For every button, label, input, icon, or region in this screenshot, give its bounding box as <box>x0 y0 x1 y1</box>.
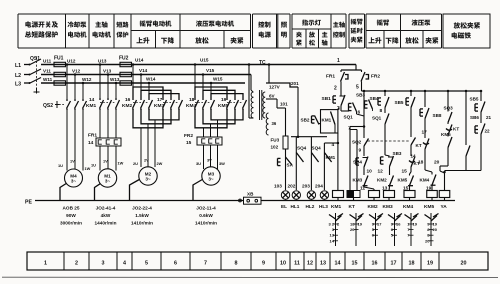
label 127V tap and wire 201 <box>266 83 298 87</box>
limit switch SQ4a <box>295 137 297 153</box>
svg-text:204: 204 <box>315 184 323 189</box>
svg-text:W11: W11 <box>43 77 53 82</box>
svg-text:1: 1 <box>337 58 340 64</box>
svg-text:JO2-11-4: JO2-11-4 <box>196 206 216 211</box>
svg-text:15: 15 <box>186 140 192 146</box>
svg-text:V15: V15 <box>206 68 215 73</box>
svg-text:SQ2: SQ2 <box>352 140 362 145</box>
svg-text:FR1: FR1 <box>326 74 335 80</box>
svg-text:HL3: HL3 <box>319 204 328 209</box>
svg-text:17: 17 <box>157 97 163 103</box>
wire control common bus <box>261 200 455 202</box>
contact table KM4 <box>410 213 412 246</box>
svg-text:KT: KT <box>349 204 355 210</box>
limit switch contact SQ1b <box>384 108 386 114</box>
svg-text:6V: 6V <box>269 94 276 99</box>
svg-text:3~: 3~ <box>105 179 111 184</box>
svg-text:QS2: QS2 <box>43 103 53 109</box>
svg-text:YA: YA <box>441 204 448 210</box>
ground wire M2 to PE <box>130 180 140 201</box>
motor M2 <box>139 167 157 185</box>
svg-text:KM4: KM4 <box>420 178 430 183</box>
motor M3 <box>202 167 220 185</box>
wire 1 <box>355 65 357 71</box>
svg-text:9: 9 <box>359 148 362 154</box>
contactor KM3 main contacts <box>154 97 183 110</box>
svg-text:QS1: QS1 <box>30 56 40 62</box>
wire TC primary feed from L1 <box>248 65 250 119</box>
svg-text:KM3: KM3 <box>383 204 393 210</box>
parallel loop SB2 / KM1 self-hold <box>321 110 338 133</box>
svg-text:18: 18 <box>418 160 424 166</box>
thermal contact FR1 <box>340 70 342 72</box>
interlock contact KM3 <box>364 176 368 186</box>
svg-text:1V: 1V <box>103 159 108 164</box>
header cell: hydraulic pump motor / release / clamp <box>196 21 234 27</box>
lamp EL <box>281 191 289 199</box>
svg-text:19: 19 <box>221 97 227 103</box>
interlock contact KM2 <box>390 176 394 186</box>
button SB3 break contact <box>380 157 382 164</box>
svg-text:4: 4 <box>123 261 126 267</box>
svg-text:SB3: SB3 <box>393 151 402 156</box>
lamp HL1 <box>292 191 300 199</box>
svg-text:U12: U12 <box>67 59 76 64</box>
svg-text:16: 16 <box>125 97 131 103</box>
svg-text:FU2: FU2 <box>119 56 129 62</box>
svg-text:KM4: KM4 <box>403 204 413 210</box>
svg-text:SQ4: SQ4 <box>312 146 322 151</box>
contact table KM5/YA <box>430 213 432 246</box>
header cell: short-circuit protection <box>116 22 128 28</box>
svg-text:1U: 1U <box>91 163 96 168</box>
ground wire M1 to PE <box>95 184 101 201</box>
svg-text:201: 201 <box>291 81 299 86</box>
svg-text:KM5: KM5 <box>441 132 451 137</box>
svg-text:8: 8 <box>235 261 238 267</box>
svg-text:U11: U11 <box>43 59 52 64</box>
button SB4 break contact <box>363 146 365 156</box>
svg-text:6: 6 <box>174 261 177 267</box>
svg-text:KM1: KM1 <box>322 118 332 123</box>
wire L1 bus <box>41 64 356 66</box>
wires KM1 to FR1 <box>99 110 101 138</box>
interlock contact KM5 <box>410 176 414 186</box>
auxiliary contact KM5 right branch <box>465 91 467 145</box>
svg-text:HL1: HL1 <box>291 204 300 209</box>
header cell: rocker-arm delayed clamping <box>351 19 363 25</box>
button SB5 clamp-release chain <box>480 91 482 101</box>
wire KM1 drops <box>99 65 101 99</box>
start button SB3 (arm up) <box>363 91 365 98</box>
thermal relay FR1 heaters <box>88 133 121 147</box>
svg-text:10: 10 <box>280 261 286 267</box>
svg-text:TC: TC <box>259 60 266 66</box>
svg-text:KM2: KM2 <box>122 103 132 109</box>
svg-text:EL: EL <box>281 204 287 209</box>
header cell: rocker arm / up / down <box>377 20 389 26</box>
svg-text:1V: 1V <box>70 159 75 164</box>
svg-text:15: 15 <box>402 169 408 175</box>
svg-text:L1: L1 <box>15 63 21 69</box>
svg-text:102: 102 <box>271 145 279 150</box>
svg-text:14: 14 <box>88 140 94 146</box>
header table frame <box>18 14 490 48</box>
coil KM2 <box>369 191 380 198</box>
contactor KM2 main contacts <box>122 97 153 110</box>
svg-text:2U: 2U <box>133 161 138 166</box>
svg-text:SB1: SB1 <box>322 96 332 102</box>
svg-text:KM1: KM1 <box>331 204 341 210</box>
motor M1 <box>98 169 116 187</box>
coil KM4 <box>404 191 415 198</box>
svg-text:KT: KT <box>416 143 422 148</box>
wires to FR2 <box>203 128 205 137</box>
svg-text:JO2-41-4: JO2-41-4 <box>96 206 116 211</box>
wire L2 bus <box>41 74 251 76</box>
svg-text:202: 202 <box>288 184 296 189</box>
svg-text:103: 103 <box>274 184 282 189</box>
svg-text:JO2-22-4: JO2-22-4 <box>132 206 152 211</box>
svg-text:2: 2 <box>75 261 78 267</box>
svg-text:U14: U14 <box>135 58 144 63</box>
header cell: cooling pump motor <box>68 22 87 28</box>
auxiliary contact KM1 for spindle lamp <box>324 142 338 144</box>
thermal relay FR2 heaters <box>184 133 222 146</box>
limit switch SQ2a <box>363 116 365 138</box>
winding 36V <box>266 113 268 135</box>
svg-text:12: 12 <box>378 169 384 175</box>
wire KM3 cross-links upper <box>133 87 163 98</box>
svg-text:3V: 3V <box>207 158 212 163</box>
svg-text:AOB 25: AOB 25 <box>63 206 80 211</box>
svg-text:5: 5 <box>145 261 148 267</box>
time contact KT delayed c <box>447 123 449 125</box>
mechanical link dashes SQ2 <box>368 140 411 142</box>
svg-text:V12: V12 <box>72 69 81 74</box>
wire link to YA branch <box>445 170 482 172</box>
svg-text:2W: 2W <box>157 161 163 166</box>
svg-text:15: 15 <box>352 261 358 267</box>
svg-text:8: 8 <box>380 108 383 114</box>
switch SA lighting <box>285 149 287 157</box>
wire to KT coil <box>350 126 364 128</box>
svg-text:1U: 1U <box>58 163 63 168</box>
svg-text:3~: 3~ <box>208 177 214 182</box>
svg-text:L3: L3 <box>15 82 21 88</box>
svg-text:SB4: SB4 <box>370 96 379 101</box>
svg-text:SB4: SB4 <box>353 160 362 165</box>
svg-text:W14: W14 <box>146 77 156 82</box>
contact table KT <box>355 213 357 246</box>
svg-text:18: 18 <box>409 261 415 267</box>
svg-text:KM1: KM1 <box>86 103 96 109</box>
button SB6 chain <box>474 126 476 133</box>
svg-text:SQ1: SQ1 <box>372 116 382 121</box>
wire 4 to coil KM1 <box>337 133 339 191</box>
svg-text:13: 13 <box>320 261 326 267</box>
time contact KT delayed b <box>425 139 429 150</box>
wire TC link from L1 bus <box>268 65 270 84</box>
svg-text:17: 17 <box>391 261 397 267</box>
svg-text:3: 3 <box>102 261 105 267</box>
transformer TC <box>251 60 266 120</box>
ground wire M4 to PE <box>60 184 66 201</box>
wire to YA <box>440 165 448 167</box>
limit switch SQ3 <box>447 91 449 112</box>
svg-text:16: 16 <box>372 261 378 267</box>
svg-text:90W: 90W <box>66 213 76 218</box>
svg-text:KM5: KM5 <box>398 178 408 183</box>
svg-text:21: 21 <box>486 115 492 120</box>
button SB6 (clamp) <box>424 91 426 107</box>
fuse FU3 wire 102 <box>285 108 287 136</box>
header cell: control power <box>258 22 270 28</box>
sheet number strip <box>27 252 488 270</box>
wires FR2 to M3 <box>203 145 205 169</box>
svg-text:3U: 3U <box>196 161 201 166</box>
svg-text:9: 9 <box>262 261 265 267</box>
wire lamp bottoms <box>285 199 287 202</box>
svg-text:SB3: SB3 <box>356 93 365 98</box>
label wire 5 <box>361 84 363 91</box>
header cell: hydraulic pump / release / clamp <box>412 20 431 26</box>
svg-text:0.6kW: 0.6kW <box>199 213 213 218</box>
contact table KM3 <box>394 213 396 246</box>
wire KM5 cross-links upper <box>195 87 227 98</box>
svg-text:FU1: FU1 <box>54 56 64 62</box>
svg-text:4kW: 4kW <box>101 213 111 218</box>
wires to M2 <box>140 128 142 167</box>
switch QS2 <box>43 99 87 110</box>
ground wire M3 to PE <box>193 180 202 201</box>
coil KT time relay <box>347 191 354 198</box>
svg-text:17: 17 <box>422 130 428 136</box>
svg-text:KM2: KM2 <box>377 178 387 183</box>
wire L3 bus <box>41 82 245 84</box>
limit switch SQ4b <box>310 137 312 153</box>
svg-text:203: 203 <box>302 184 310 189</box>
svg-text:1410r/min: 1410r/min <box>131 221 153 226</box>
svg-text:KM1: KM1 <box>326 155 336 160</box>
svg-text:3~: 3~ <box>145 177 151 182</box>
svg-text:KM3: KM3 <box>353 178 363 183</box>
start button SB4 (arm down) <box>384 91 386 96</box>
svg-text:22: 22 <box>485 129 491 134</box>
svg-text:SQ4: SQ4 <box>297 146 307 151</box>
svg-text:1410r/min: 1410r/min <box>195 221 217 226</box>
svg-text:14: 14 <box>335 261 341 267</box>
coil KM3 <box>384 191 395 198</box>
coil KM1 <box>333 191 344 198</box>
wire KM4 drops <box>194 65 196 99</box>
stop button SB1 <box>332 96 334 103</box>
svg-text:L2: L2 <box>15 73 21 79</box>
svg-text:U15: U15 <box>200 58 209 63</box>
header cell: rocker-arm motor / up / down <box>140 21 172 27</box>
svg-text:SB8: SB8 <box>433 113 442 118</box>
wires QS2 to M4 <box>66 110 68 171</box>
motor M4 <box>65 169 83 187</box>
svg-text:SA: SA <box>287 163 294 168</box>
svg-text:2: 2 <box>334 86 337 92</box>
svg-text:12: 12 <box>307 261 313 267</box>
svg-text:3000r/min: 3000r/min <box>60 221 82 226</box>
svg-text:W13: W13 <box>110 77 120 82</box>
svg-text:20: 20 <box>461 261 467 267</box>
svg-text:6: 6 <box>358 110 361 116</box>
contactor KM1 main contacts <box>86 97 120 110</box>
auxiliary contact KM5 mid <box>447 135 449 137</box>
svg-text:14: 14 <box>89 97 95 103</box>
limit switch contact SQ1a <box>341 110 349 112</box>
svg-text:SQ1: SQ1 <box>344 115 354 120</box>
svg-text:FR2: FR2 <box>184 133 193 139</box>
svg-text:5: 5 <box>356 85 359 91</box>
contact table KM2 <box>375 213 377 246</box>
svg-text:18: 18 <box>189 97 195 103</box>
time contact KT delayed <box>411 157 415 168</box>
svg-text:KT: KT <box>453 127 459 132</box>
lamp HL3 <box>320 191 328 199</box>
svg-text:127V: 127V <box>269 85 281 90</box>
svg-text:XB: XB <box>247 192 254 197</box>
svg-text:V13: V13 <box>103 69 112 74</box>
svg-text:PE: PE <box>25 200 32 206</box>
wire PE bus <box>35 200 244 202</box>
svg-text:36: 36 <box>272 121 277 126</box>
svg-text:FR2: FR2 <box>371 74 380 80</box>
main switch QS1 <box>29 56 42 94</box>
svg-text:11: 11 <box>294 261 300 267</box>
svg-text:SB6: SB6 <box>470 115 479 120</box>
header cell: indicator lamps / clamp / release / spindle <box>302 20 321 26</box>
header cell: spindle control <box>333 22 345 28</box>
svg-text:20: 20 <box>434 160 440 166</box>
svg-text:19: 19 <box>427 261 433 267</box>
label 6V tap and wire 101 <box>266 98 277 100</box>
scan artifact bottom line <box>2 276 498 278</box>
svg-text:HL2: HL2 <box>306 204 315 209</box>
contactor KM4 main contacts <box>186 97 215 110</box>
label wire 2 <box>340 84 342 94</box>
svg-text:KM5: KM5 <box>424 204 434 210</box>
header cell: lighting <box>281 22 287 28</box>
svg-text:KM2: KM2 <box>368 204 378 210</box>
svg-text:3~: 3~ <box>71 179 77 184</box>
svg-text:1440r/min: 1440r/min <box>95 221 117 226</box>
coil KM5 <box>427 191 438 198</box>
svg-text:FU3: FU3 <box>271 138 280 143</box>
svg-text:V14: V14 <box>139 68 148 73</box>
wire KM2/KM3 cross-links lower <box>133 109 163 128</box>
svg-text:1W: 1W <box>118 161 124 166</box>
contact table KM1 <box>335 213 337 246</box>
lamp bus <box>291 136 327 138</box>
svg-text:SB5: SB5 <box>470 97 479 102</box>
button SB5 (release) <box>410 91 412 96</box>
thermal contact FR2 <box>361 70 363 72</box>
svg-text:11: 11 <box>360 186 365 192</box>
wire 201 rail down to lamp bus <box>297 87 299 137</box>
contactor KM5 main contacts <box>218 97 247 110</box>
wire KM2 drops <box>132 65 134 99</box>
interlock contact KM4 <box>425 170 432 172</box>
header cell: release-clamp electromagnet <box>454 22 481 28</box>
svg-text:1: 1 <box>44 261 47 267</box>
svg-text:2V: 2V <box>144 158 149 163</box>
svg-text:4: 4 <box>332 142 335 148</box>
wires FR1 to M1 <box>99 146 101 171</box>
wire QS2 drops <box>66 65 68 100</box>
svg-text:3W: 3W <box>219 161 225 166</box>
svg-text:V11: V11 <box>43 69 51 74</box>
lamp HL2 <box>307 191 315 199</box>
svg-text:W15: W15 <box>213 77 223 82</box>
svg-text:SB5: SB5 <box>395 100 404 105</box>
svg-text:W12: W12 <box>82 77 92 82</box>
svg-text:SQ3: SQ3 <box>444 106 454 111</box>
wire KM4/KM5 cross-links lower <box>195 109 227 128</box>
header cell: spindle motor <box>95 21 107 27</box>
svg-text:14: 14 <box>411 154 417 159</box>
svg-text:1W: 1W <box>85 166 91 171</box>
svg-text:U13: U13 <box>98 59 107 64</box>
svg-text:1.5kW: 1.5kW <box>135 213 149 218</box>
svg-text:101: 101 <box>280 102 288 107</box>
electromagnet coil YA <box>439 191 450 198</box>
wire TC primary feed from L2 <box>250 75 252 91</box>
header cell: power switch & short-circuit protection <box>25 21 58 27</box>
limit switch SQ2b <box>410 108 412 138</box>
svg-text:7: 7 <box>204 261 207 267</box>
svg-text:10: 10 <box>367 169 373 175</box>
svg-text:SB2: SB2 <box>301 118 310 123</box>
control bus wire 5 horizontal <box>362 90 482 92</box>
